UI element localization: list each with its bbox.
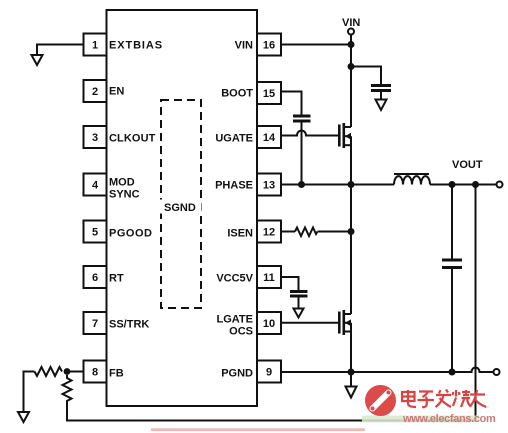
ground at input cap (376, 100, 387, 111)
wire pin15 BOOT to cap (281, 92, 302, 115)
wire inductor to VOUT terminal (430, 184, 497, 186)
pin name labels left (109, 40, 163, 380)
svg-text:7: 7 (92, 318, 98, 330)
svg-text:FB: FB (109, 368, 124, 380)
svg-text:16: 16 (263, 40, 275, 52)
pin name labels right (215, 40, 254, 380)
svg-text:14: 14 (263, 132, 276, 144)
pin 2 box (84, 80, 107, 102)
pin number labels (92, 40, 276, 379)
pin 3 box (84, 126, 107, 148)
svg-text:PGOOD: PGOOD (109, 228, 152, 240)
烧 (453, 390, 471, 407)
pin 10 box (257, 312, 281, 334)
node junction VIN-pin16 (348, 41, 355, 48)
pin 15 box (257, 82, 281, 104)
wire cap1 bottom to PGND (451, 269, 453, 372)
pin 7 box (84, 312, 107, 334)
pin 9 box (257, 361, 281, 383)
node junction PGND-cap1 (449, 369, 456, 376)
capacitor C2 (boot cap) (293, 115, 311, 118)
transistor Q2 lower MOSFET (338, 310, 351, 372)
node SGND label (159, 200, 202, 215)
wire pin9 PGND rail (with hop over sense line) (281, 368, 494, 373)
pin 1 box (84, 34, 107, 56)
node PGND terminal (494, 369, 500, 375)
node SGND dashed box (161, 100, 201, 308)
watermark text 电子发烧友 (stroke approximation) (402, 390, 486, 408)
watermark bottom sliver (151, 428, 365, 431)
电 (402, 390, 416, 407)
wire pin12 ISEN to resistor (281, 231, 295, 233)
svg-text:VIN: VIN (342, 17, 360, 29)
wire resistor to rail (318, 231, 352, 233)
wire rail phase to lower FET drain (350, 185, 352, 315)
ground at VCC5V cap (294, 309, 304, 318)
svg-text:6: 6 (92, 272, 98, 284)
svg-text:VIN: VIN (235, 40, 253, 52)
ground at EXTBIAS (32, 55, 43, 65)
node junction VOUT-cap1 (449, 181, 456, 188)
svg-text:8: 8 (92, 367, 98, 379)
resistor R1 (FB to ground, horizontal) (35, 367, 63, 376)
node junction VOUT-sense (472, 181, 479, 188)
svg-text:3: 3 (92, 132, 98, 144)
node junction phase-rail (348, 181, 355, 188)
svg-text:9: 9 (266, 367, 272, 379)
watermark green band (362, 416, 479, 423)
wire cap to ground (298, 298, 300, 309)
svg-text:SS/TRK: SS/TRK (109, 319, 149, 331)
inductor L1 (394, 174, 430, 185)
resistor R2 (FB to VOUT, vertical) (63, 375, 72, 403)
svg-text:CLKOUT: CLKOUT (109, 133, 156, 145)
pin 11 box (257, 266, 281, 288)
svg-text:LGATE: LGATE (217, 314, 253, 326)
svg-text:UGATE: UGATE (215, 133, 253, 145)
pin 6 box (84, 266, 107, 288)
svg-text:EXTBIAS: EXTBIAS (109, 40, 163, 52)
pin 8 box (84, 361, 107, 383)
wire FB to divider (67, 371, 84, 373)
svg-text:RT: RT (109, 273, 124, 285)
watermark logo circle (365, 385, 396, 416)
pin 12 box (257, 221, 281, 243)
pin 13 box (257, 174, 281, 196)
子 (418, 392, 435, 408)
node junction VIN-cap (348, 63, 355, 70)
op-amp U1 IC body (107, 10, 258, 406)
node VOUT terminal (497, 182, 503, 188)
svg-text:5: 5 (92, 227, 98, 239)
svg-text:1: 1 (92, 40, 98, 52)
svg-text:SYNC: SYNC (109, 189, 140, 201)
发 (436, 390, 452, 408)
wire divider bottom to VOUT sense (67, 403, 476, 421)
svg-text:www.elecfans.com: www.elecfans.com (402, 413, 496, 425)
svg-text:EN: EN (109, 86, 124, 98)
svg-text:MOD: MOD (109, 177, 135, 189)
pin 4 box (84, 174, 107, 196)
node junction PGND-rail (348, 369, 355, 376)
svg-text:BOOT: BOOT (221, 88, 253, 100)
capacitor C1 (VIN input cap) (371, 84, 391, 87)
node junction ISEN-rail (348, 228, 355, 235)
svg-text:SGND: SGND (164, 202, 196, 214)
wire pin1 to ground (37, 45, 84, 56)
wire cap to ground (380, 92, 382, 100)
node junction boot-phase (298, 181, 305, 188)
pin 5 box (84, 221, 107, 243)
wire VOUT sense line (475, 185, 477, 421)
wire pin13 PHASE (281, 184, 394, 186)
svg-text:PHASE: PHASE (215, 180, 253, 192)
wire pin11 VCC5V to cap (281, 277, 299, 290)
wire pin14 UGATE to gate (with hop over boot line) (281, 131, 339, 136)
svg-text:PGND: PGND (221, 368, 253, 380)
pin 14 box (257, 126, 281, 148)
wire pin10 LGATE to gate (281, 322, 339, 324)
svg-text:2: 2 (92, 86, 98, 98)
capacitor C4 (VCC5V decoupling) (290, 290, 308, 293)
svg-text:10: 10 (263, 318, 275, 330)
ground at FB divider (18, 412, 29, 422)
node FB junction (64, 368, 71, 375)
wire resistor to ground (24, 372, 35, 413)
wire boot cap to phase (301, 123, 303, 185)
svg-text:OCS: OCS (229, 326, 253, 338)
wire cap1 top (451, 185, 453, 259)
node VIN terminal (348, 29, 354, 35)
transistor Q1 upper MOSFET (338, 123, 351, 185)
svg-text:15: 15 (263, 88, 275, 100)
capacitor C3 (output cap) (442, 259, 462, 262)
友 (470, 390, 486, 407)
svg-text:VOUT: VOUT (452, 159, 483, 171)
wire pin16 to VIN (281, 44, 351, 46)
wire VIN to input cap (351, 67, 381, 85)
svg-text:ISEN: ISEN (227, 228, 253, 240)
ground at PGND (346, 387, 357, 398)
svg-text:VCC5V: VCC5V (216, 273, 253, 285)
svg-text:4: 4 (92, 180, 99, 192)
resistor R3 (ISEN) (295, 228, 318, 237)
wire rail to ground (350, 372, 352, 387)
svg-text:12: 12 (263, 227, 275, 239)
svg-text:11: 11 (263, 272, 275, 284)
pin 16 box (257, 34, 281, 56)
svg-text:13: 13 (263, 180, 275, 192)
wire VIN vertical rail (350, 35, 352, 128)
